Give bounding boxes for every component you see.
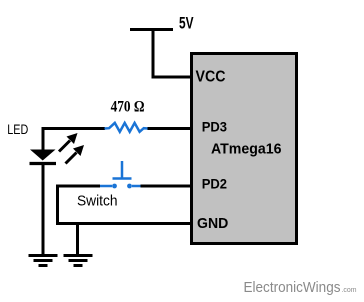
wire LED cathode to ground: [42, 164, 45, 257]
label 5V: [179, 15, 194, 33]
resistor R1 470 ohm: [105, 123, 149, 132]
svg-text:ElectronicWings: ElectronicWings: [244, 279, 341, 296]
IC U1 ATmega16 body: [192, 54, 297, 244]
svg-text:GND: GND: [197, 215, 228, 232]
ground symbol 1 (LED): [29, 256, 58, 266]
wire resistor to PD3 pin: [148, 127, 194, 130]
pin label PD2: [202, 175, 227, 191]
svg-text:.com: .com: [342, 287, 357, 294]
LED arrow 2: [66, 145, 85, 164]
pin label VCC: [196, 68, 226, 85]
LED D1 triangle: [30, 150, 56, 161]
wire to VCC pin: [152, 76, 194, 79]
wire 5V vertical drop: [152, 30, 155, 78]
wire switch top left segment: [56, 185, 100, 188]
label 470 ohm: [111, 99, 145, 116]
svg-text:ATmega16: ATmega16: [211, 142, 282, 158]
LED arrow 1: [59, 133, 78, 152]
switch S1 push button: [100, 161, 141, 188]
pin label PD3: [202, 118, 227, 134]
svg-text:PD3: PD3: [202, 118, 227, 134]
svg-text:LED: LED: [7, 121, 28, 137]
svg-text:5V: 5V: [179, 15, 194, 33]
svg-text:Switch: Switch: [77, 193, 118, 209]
wire switch loop left and bottom to GND pin: [58, 185, 194, 224]
power 5V bar: [130, 28, 173, 31]
svg-text:VCC: VCC: [196, 68, 226, 85]
LED D1 cathode bar: [30, 162, 57, 165]
wire ground stub from bottom rail: [76, 224, 79, 257]
watermark ElectronicWings.com: [244, 279, 357, 296]
wire switch to PD2 pin: [141, 185, 194, 188]
svg-text:PD2: PD2: [202, 175, 227, 191]
pin label GND: [197, 215, 228, 232]
label ATmega16: [211, 142, 282, 158]
svg-text:470 Ω: 470 Ω: [111, 99, 145, 116]
label LED: [7, 121, 28, 137]
wire LED anode corner to resistor: [43, 129, 105, 151]
label Switch: [77, 193, 118, 209]
ground symbol 2 (switch rail): [64, 256, 93, 266]
